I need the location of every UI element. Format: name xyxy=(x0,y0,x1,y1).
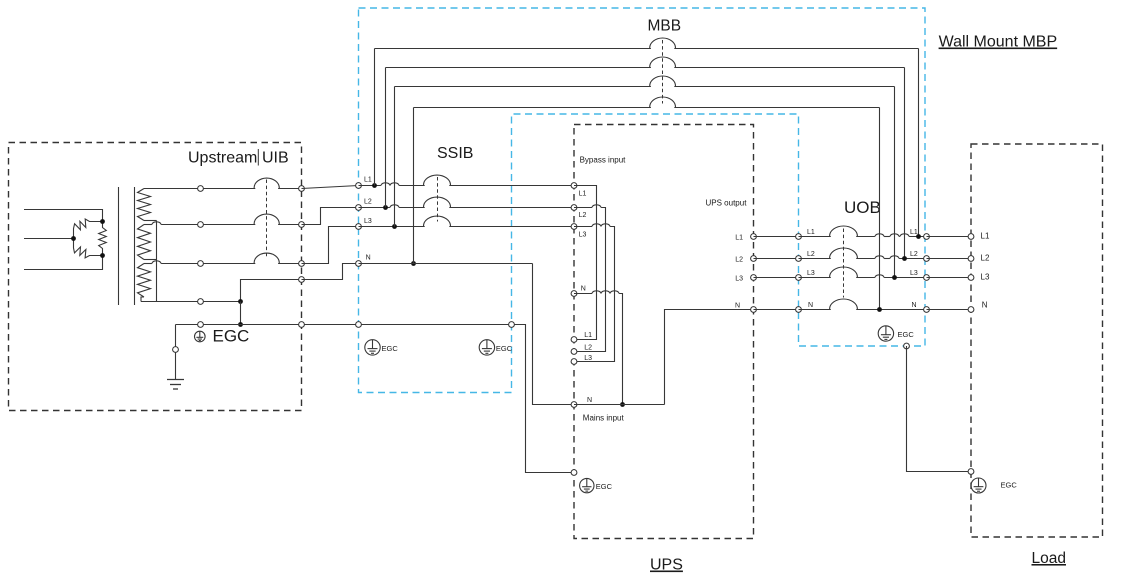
enclosure outline Wall Mount MBP (cyan polygon around MBB / SSIB / UOB) xyxy=(359,8,926,393)
svg-text:L3: L3 xyxy=(579,232,587,239)
wire MBB top run N xyxy=(414,107,651,109)
breaker UIB pole L2 (arc) xyxy=(254,214,279,224)
svg-text:N: N xyxy=(808,302,813,309)
wire N UOB breaker to MBP edge xyxy=(856,309,926,311)
breaker MBB pole L3 (arc) xyxy=(650,76,676,86)
EGC protective earth symbol (UIB) xyxy=(195,331,206,342)
junction delta left vertex xyxy=(71,236,76,241)
wire L2 UIB breaker to box edge xyxy=(278,224,301,226)
transformer T1 core bar right xyxy=(134,187,136,305)
ground electrode symbol xyxy=(167,380,184,390)
terminal circle L3 MBP entry xyxy=(356,224,362,230)
terminal circle MBP exit L1 xyxy=(924,234,930,240)
ground electrode branch wire xyxy=(175,325,177,380)
breaker SSIB pole L1 (arc) xyxy=(424,175,451,185)
svg-text:EGC: EGC xyxy=(596,482,613,491)
wire EGC bus to UPS (corner down) xyxy=(512,325,575,473)
terminal circle UOB L2 in xyxy=(796,256,802,262)
terminal circle MBP exit L3 xyxy=(924,275,930,281)
svg-text:N: N xyxy=(982,301,988,310)
wire MBB top run L3 xyxy=(395,86,651,88)
svg-text:L3: L3 xyxy=(584,355,592,362)
svg-text:L3: L3 xyxy=(735,275,743,282)
wire bypass N to mains N (hops over jumpers) xyxy=(574,293,592,295)
transformer T1 secondary winding phase C (zigzag) xyxy=(138,264,151,298)
wire mains N row to UPS output N xyxy=(574,404,665,406)
terminal circle Load EGC xyxy=(968,469,974,475)
breaker MBB pole L2 (arc) xyxy=(650,57,676,67)
junction delta top-right vertex xyxy=(100,219,105,224)
svg-text:Upstream: Upstream xyxy=(188,150,257,167)
junction L1 MBB tap xyxy=(372,183,377,188)
terminal circle mains N xyxy=(571,402,577,408)
breaker UIB pole L3 (arc) xyxy=(254,253,279,263)
terminal circle bypass L3 xyxy=(571,224,577,230)
junction MBB drop L1 xyxy=(916,234,921,239)
terminal circle mains L2 xyxy=(571,349,577,355)
wire N UIB to SSIB (step up) xyxy=(302,264,359,280)
jumper bypass L3 to mains L3 (hops over L1/L2 jumpers) xyxy=(574,226,592,228)
svg-text:N: N xyxy=(587,397,592,404)
wire N-ground bond vertical xyxy=(240,302,242,325)
junction N at bond vertical xyxy=(238,299,243,304)
wire L1 UIB to SSIB (sloped) xyxy=(302,186,359,189)
breaker MBB pole N (arc) xyxy=(650,97,676,107)
terminal circle N MBP entry xyxy=(356,261,362,267)
breaker UOB pole N (arc) xyxy=(830,299,858,309)
svg-text:UIB: UIB xyxy=(262,150,289,167)
wire N MBP to Load xyxy=(927,309,972,311)
terminal circle Load N xyxy=(968,307,974,313)
wire L3 UIB to SSIB (step up) xyxy=(302,227,359,264)
svg-text:L2: L2 xyxy=(735,256,743,263)
wire MBB riser L2 up xyxy=(385,68,387,208)
terminal circle L2 MBP entry xyxy=(356,205,362,211)
terminal circle L2 UIB box edge xyxy=(299,222,305,228)
terminal circle UOB L1 in xyxy=(796,234,802,240)
wire L2 UOB breaker to MBP edge (hops over N/L3 drops) xyxy=(856,258,875,260)
junction N-ground bond on EGC bus xyxy=(238,322,243,327)
terminal circle L1 MBP entry xyxy=(356,183,362,189)
breaker UOB pole L3 (arc) xyxy=(830,267,858,277)
wire L1 SSIB row with hops over L2/L3 risers xyxy=(359,185,381,187)
junction L2 MBB tap xyxy=(383,205,388,210)
terminal circle UPS output N xyxy=(751,307,757,313)
wire N UPS output to UOB xyxy=(754,309,799,311)
svg-text:EGC: EGC xyxy=(382,344,399,353)
transformer T1 secondary winding phase A (zigzag) xyxy=(138,189,151,221)
transformer T1 delta winding lower (lead + zigzag) xyxy=(74,239,103,258)
terminal circle mains L1 xyxy=(571,337,577,343)
svg-text:N: N xyxy=(911,302,916,309)
terminal circle EGC UIB box edge xyxy=(299,322,305,328)
svg-text:L3: L3 xyxy=(981,273,990,282)
svg-text:L2: L2 xyxy=(807,251,815,258)
junction N MBB tap xyxy=(411,261,416,266)
wire MBB riser N up xyxy=(413,108,415,264)
jumper bypass L2 to mains L2 (hop over L1 jumper) xyxy=(574,207,592,209)
wire L3 transformer to UIB breaker (hop over neutral bus) xyxy=(144,263,152,265)
EGC protective earth symbol (Load) xyxy=(971,478,986,493)
terminal circle L1 transformer xyxy=(198,186,204,192)
wire L1 UPS output to UOB xyxy=(754,236,799,238)
wire L3 UOB in to breaker xyxy=(799,277,831,279)
svg-text:L2: L2 xyxy=(584,345,592,352)
terminal circle Load L2 xyxy=(968,256,974,262)
wire MBB drop L1 down xyxy=(918,49,920,237)
transformer T1 primary feeder line top xyxy=(24,210,103,222)
svg-text:L1: L1 xyxy=(584,332,592,339)
terminal circle mains L3 xyxy=(571,359,577,365)
wire L2 transformer to UIB breaker (hop over neutral bus) xyxy=(144,224,152,226)
transformer T1 primary feeder line bottom xyxy=(24,256,103,270)
breaker UIB pole L1 (arc) xyxy=(254,178,279,188)
svg-text:N: N xyxy=(366,255,371,262)
junction bypass N on mains N row xyxy=(620,402,625,407)
svg-text:L3: L3 xyxy=(364,218,372,225)
terminal circle L3 UIB box edge xyxy=(299,261,305,267)
wire L1 UOB breaker to MBP edge (hops over N/L3/L2 drops) xyxy=(856,236,875,238)
wire L2 MBP to Load xyxy=(927,258,972,260)
wire L1 UOB in to breaker xyxy=(799,236,831,238)
jumper bypass L1 to mains L1 xyxy=(574,186,597,340)
wire L2 UIB to SSIB (step up) xyxy=(302,208,359,225)
terminal circle L3 transformer xyxy=(198,261,204,267)
transformer T1 core bar left xyxy=(118,187,120,305)
breaker MBB trip linkage (dashed) xyxy=(662,40,664,104)
wire L3 SSIB row xyxy=(359,226,425,228)
wire N UOB in to breaker xyxy=(799,309,831,311)
wire MBB drop N down xyxy=(879,108,881,310)
svg-text:L3: L3 xyxy=(910,270,918,277)
wire MBB top run L1 xyxy=(375,48,651,50)
terminal circle UPS output L2 xyxy=(751,256,757,262)
wire winding A bottom to neutral bus xyxy=(144,220,157,222)
terminal circle EGC on MBP notch edge xyxy=(509,322,515,328)
svg-text:L1: L1 xyxy=(735,234,743,241)
terminal circle MBP exit L2 xyxy=(924,256,930,262)
junction delta bottom-right vertex xyxy=(100,253,105,258)
breaker UOB trip linkage (dashed) xyxy=(843,229,845,298)
terminal circle UOB N in xyxy=(796,307,802,313)
wire L2 UOB in to breaker xyxy=(799,258,831,260)
svg-text:L2: L2 xyxy=(579,212,587,219)
svg-text:UOB: UOB xyxy=(844,198,881,217)
svg-text:EGC: EGC xyxy=(898,330,915,339)
breaker SSIB pole L2 (arc) xyxy=(424,197,451,207)
terminal circle UOB L3 in xyxy=(796,275,802,281)
terminal circle EGC UPS box edge xyxy=(571,470,577,476)
breaker SSIB trip linkage (dashed) xyxy=(437,177,439,222)
terminal circle bypass N xyxy=(571,291,577,297)
junction MBB drop N xyxy=(877,307,882,312)
breaker MBB pole L1 (arc) xyxy=(650,38,676,48)
terminal circle L1 UIB box edge xyxy=(299,186,305,192)
svg-text:L1: L1 xyxy=(807,229,815,236)
enclosure box Load xyxy=(971,144,1103,537)
wire winding C bottom lead to neutral row xyxy=(141,297,144,302)
svg-text:Load: Load xyxy=(1032,550,1066,567)
svg-text:N: N xyxy=(735,302,740,309)
wire N SSIB row to UPS mains (corner down) xyxy=(359,263,533,265)
terminal circle EGC UOB bottom edge xyxy=(904,343,910,349)
svg-text:Bypass input: Bypass input xyxy=(580,156,627,165)
terminal circle MBP exit N xyxy=(924,307,930,313)
transformer T1 primary feeder line middle xyxy=(24,238,74,240)
wire N up-step to UIB box edge xyxy=(241,280,302,302)
wire EGC UOB to Load xyxy=(907,346,972,472)
terminal circle EGC on MBP left edge xyxy=(356,322,362,328)
wire neutral bus vertical xyxy=(156,221,158,302)
wire L2 UPS output to UOB xyxy=(754,258,799,260)
junction MBB drop L2 xyxy=(902,256,907,261)
wire L2 SSIB row with hop over L3 riser xyxy=(359,207,390,209)
svg-text:EGC: EGC xyxy=(213,327,250,346)
breaker UIB trip linkage (dashed) xyxy=(266,180,268,259)
wire L3 SSIB breaker to UPS bypass input xyxy=(449,226,574,228)
terminal circle ground electrode xyxy=(173,347,179,353)
svg-text:Mains input: Mains input xyxy=(583,414,625,423)
svg-text:L1: L1 xyxy=(364,177,372,184)
wire L1 SSIB breaker to UPS bypass input xyxy=(449,185,574,187)
svg-text:L1: L1 xyxy=(981,232,990,241)
wire L3 UIB breaker to box edge xyxy=(278,263,301,265)
wire L1 MBP to Load xyxy=(927,236,972,238)
wire EGC bus horizontal xyxy=(176,324,512,326)
breaker SSIB pole L3 (arc) xyxy=(424,216,451,226)
breaker UOB pole L2 (arc) xyxy=(830,248,858,258)
wire N transformer row xyxy=(141,301,241,303)
terminal circle bypass L1 xyxy=(571,183,577,189)
transformer T1 delta winding upper (lead + zigzag) xyxy=(74,219,103,239)
svg-text:L3: L3 xyxy=(807,270,815,277)
terminal circle N transformer xyxy=(198,299,204,305)
svg-text:EGC: EGC xyxy=(496,344,513,353)
wire winding B bottom to neutral bus xyxy=(144,259,157,261)
transformer T1 delta winding right (lead + zigzag) xyxy=(99,222,107,256)
svg-text:SSIB: SSIB xyxy=(437,145,473,162)
svg-text:L2: L2 xyxy=(981,254,990,263)
terminal circle N UIB box edge xyxy=(299,277,305,283)
EGC protective earth symbol (UPS) xyxy=(580,478,594,492)
wire MBB riser L1 up xyxy=(374,49,376,186)
EGC protective earth symbol (SSIB right) xyxy=(479,340,494,355)
terminal circle EGC transformer xyxy=(198,322,204,328)
EGC protective earth symbol (SSIB left) xyxy=(365,340,380,355)
svg-text:N: N xyxy=(581,285,586,292)
breaker UOB pole L1 (arc) xyxy=(830,226,858,236)
junction L3 MBB tap xyxy=(392,224,397,229)
svg-text:L1: L1 xyxy=(910,229,918,236)
terminal circle L2 transformer xyxy=(198,222,204,228)
wire L3 UOB breaker to MBP edge (hop over N drop) xyxy=(856,277,875,279)
wire L3 UPS output to UOB xyxy=(754,277,799,279)
wire L3 MBP to Load xyxy=(927,277,972,279)
svg-text:UPS output: UPS output xyxy=(706,199,748,208)
enclosure box UPS xyxy=(574,125,754,539)
svg-text:EGC: EGC xyxy=(1001,481,1018,490)
terminal circle UPS output L1 xyxy=(751,234,757,240)
terminal circle bypass L2 xyxy=(571,205,577,211)
wire MBB riser L3 up xyxy=(394,87,396,227)
svg-text:L2: L2 xyxy=(910,251,918,258)
wire L1 transformer to UIB breaker xyxy=(144,188,255,190)
junction MBB drop L3 xyxy=(892,275,897,280)
wire MBB top run L2 xyxy=(386,67,651,69)
wire MBB drop L2 down xyxy=(904,68,906,259)
svg-text:L2: L2 xyxy=(364,199,372,206)
svg-text:Wall Mount MBP: Wall Mount MBP xyxy=(939,34,1058,51)
terminal circle Load L1 xyxy=(968,234,974,240)
svg-text:L1: L1 xyxy=(579,191,587,198)
transformer T1 secondary winding phase B (zigzag) xyxy=(138,225,151,260)
enclosure box Upstream UIB xyxy=(9,143,302,411)
EGC protective earth symbol (UOB) xyxy=(878,326,893,341)
svg-text:UPS: UPS xyxy=(650,557,683,574)
terminal circle UPS output L3 xyxy=(751,275,757,281)
wire L2 SSIB breaker to UPS bypass input xyxy=(449,207,574,209)
svg-text:MBB: MBB xyxy=(648,18,682,35)
wire L1 UIB breaker to box edge xyxy=(278,188,301,190)
wire MBB drop L3 down xyxy=(894,87,896,278)
terminal circle Load L3 xyxy=(968,275,974,281)
